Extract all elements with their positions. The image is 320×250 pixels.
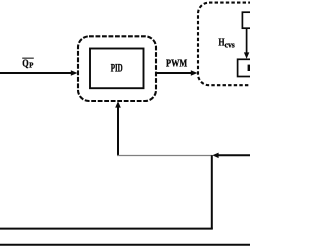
PID block [90,49,144,89]
wire bottom feedback run to left edge [0,228,213,230]
PID controller dashed container [78,36,156,101]
wire input arrow into PID controller [0,70,78,76]
wire feedback arrow up into PID container [115,101,121,155]
wire PWM arrow from PID to CVS block [157,70,198,76]
wire vertical feedback drop [211,155,213,228]
lower block inside CVS container (clipped) [238,59,258,76]
svg-text:PID: PID [111,63,123,75]
wire feedback arrow from right edge pointing left [212,153,250,159]
svg-text:Q: Q [22,59,28,70]
wire bottom full-width line [0,244,250,246]
CVS dashed container (clipped at right edge) [198,3,293,86]
wire gray feedback segment [117,155,213,157]
svg-text:P: P [29,61,34,70]
svg-text:PWM: PWM [166,57,188,69]
upper block inside CVS container (clipped) [242,12,262,28]
svg-text:cvs: cvs [225,40,235,49]
wire arrow between CVS blocks [244,28,249,59]
glyph fragment inside lower block [248,65,251,71]
node Hcvs label [218,38,234,50]
node Qp (setpoint label with overline and subscript P) [22,58,34,69]
